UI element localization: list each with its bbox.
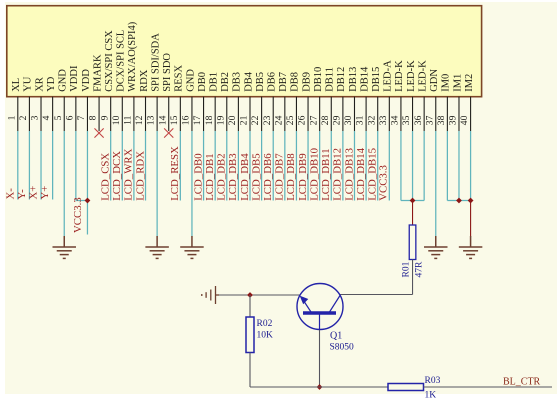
svg-text:XR: XR	[34, 77, 45, 92]
pin 16 (GND)	[181, 69, 197, 131]
svg-text:DB15: DB15	[371, 67, 382, 92]
svg-text:2: 2	[18, 115, 29, 120]
resistor R03	[388, 376, 441, 399]
svg-text:Y-: Y-	[16, 189, 28, 200]
wire LED-K link	[401, 200, 424, 202]
svg-text:LCD_DB11: LCD_DB11	[320, 148, 332, 200]
svg-text:LCD_DB10: LCD_DB10	[308, 148, 320, 201]
svg-text:7: 7	[76, 115, 87, 120]
resistor R02	[246, 317, 273, 353]
svg-text:38: 38	[436, 115, 447, 125]
wire pin 39	[458, 131, 460, 201]
pin 1 (XL)	[6, 78, 22, 131]
wire pin 38	[446, 131, 448, 201]
pin 7 (VDD)	[76, 69, 92, 131]
pin 33 (LED-A)	[378, 60, 394, 131]
ground pin 37	[424, 236, 448, 258]
svg-text:R02: R02	[257, 319, 273, 329]
wire pin 22 LCD_DB5	[250, 131, 262, 201]
resistor R01	[402, 225, 425, 278]
pin 32 (DB15)	[366, 67, 382, 131]
wire pin 1	[4, 131, 17, 200]
pin 30 (DB13)	[343, 67, 359, 131]
wire pin 5 to ground	[63, 131, 65, 237]
svg-text:18: 18	[204, 115, 215, 125]
svg-text:20: 20	[227, 115, 238, 125]
svg-text:DB8: DB8	[290, 72, 301, 92]
pin 13 (SPI SDI/SDA)	[146, 33, 162, 131]
svg-text:15: 15	[169, 115, 180, 125]
svg-text:YU: YU	[23, 76, 34, 92]
wire pin 2	[16, 131, 30, 200]
svg-text:LCD_DB3: LCD_DB3	[227, 153, 239, 200]
pin 19 (DB2)	[215, 72, 231, 131]
pin 23 (DB6)	[262, 72, 278, 131]
svg-text:LCD_DB2: LCD_DB2	[216, 153, 228, 200]
svg-text:34: 34	[390, 115, 401, 125]
svg-text:SPI SDI/SDA: SPI SDI/SDA	[150, 33, 161, 92]
junction R02 top	[247, 292, 253, 298]
pin 37 (GDN)	[424, 69, 440, 131]
svg-text:DB6: DB6	[267, 72, 278, 92]
svg-text:DB12: DB12	[336, 67, 347, 92]
svg-text:LCD_DB4: LCD_DB4	[239, 153, 251, 201]
svg-text:40: 40	[459, 115, 470, 125]
svg-text:X-: X-	[4, 188, 16, 200]
wire R03 to BL_CTR	[424, 386, 553, 388]
svg-text:26: 26	[297, 115, 308, 125]
svg-text:IM1: IM1	[452, 74, 463, 92]
svg-text:6: 6	[64, 115, 75, 120]
pin 21 (DB4)	[239, 71, 255, 131]
wire pin 26 LCD_DB9	[297, 131, 309, 201]
ground pin 13	[145, 236, 169, 258]
svg-text:LCD_DCX: LCD_DCX	[111, 151, 123, 201]
pin 27 (DB10)	[308, 67, 324, 131]
wire pin 9 LCD_CSX	[99, 131, 111, 201]
wire junction to R02	[249, 295, 251, 317]
svg-text:LCD_CSX: LCD_CSX	[99, 153, 111, 201]
svg-text:4: 4	[41, 115, 52, 120]
svg-text:31: 31	[355, 115, 366, 125]
ground pin 5	[52, 236, 75, 258]
svg-text:27: 27	[308, 115, 319, 125]
junction base	[317, 384, 323, 390]
svg-text:LCD_DB12: LCD_DB12	[332, 148, 344, 201]
pin 31 (DB14)	[355, 66, 371, 131]
svg-text:RDX: RDX	[139, 69, 150, 92]
pin 4 (YD)	[41, 76, 57, 131]
svg-text:LED-A: LED-A	[383, 60, 394, 92]
wire pin 6	[76, 131, 88, 201]
svg-text:47R: 47R	[415, 261, 425, 278]
wire pin 15 LCD_RESX	[169, 131, 181, 201]
pin 26 (DB9)	[297, 72, 313, 131]
svg-text:X+: X+	[28, 186, 40, 200]
pin 34 (LED-K)	[390, 60, 406, 131]
pin 35 (LED-K)	[401, 60, 417, 131]
svg-text:DB10: DB10	[313, 67, 324, 92]
no-connect X pin 8	[94, 128, 103, 137]
svg-text:R01: R01	[402, 261, 412, 277]
svg-text:R03: R03	[425, 376, 441, 386]
pin 3 (XR)	[30, 77, 46, 131]
wire pin 24 LCD_DB7	[274, 131, 286, 201]
wire pin 18 LCD_DB1	[204, 131, 216, 201]
svg-text:39: 39	[448, 115, 459, 125]
pin 24 (DB7)	[273, 72, 289, 131]
svg-text:8: 8	[88, 115, 99, 120]
svg-text:37: 37	[424, 115, 435, 125]
connector J1 body	[7, 6, 482, 97]
pin 40 (IM2)	[459, 74, 475, 131]
pin 14 (SPI SDO)	[157, 53, 173, 131]
svg-text:CSX/SPI CSX: CSX/SPI CSX	[104, 30, 115, 92]
svg-text:VCC3.3: VCC3.3	[72, 197, 84, 233]
svg-text:24: 24	[273, 115, 284, 125]
svg-text:14: 14	[157, 115, 168, 125]
svg-text:XL: XL	[11, 78, 22, 92]
pin 9 (CSX/SPI CSX)	[99, 30, 115, 131]
wire pin 7 VCC3.3	[72, 131, 88, 235]
svg-text:LCD_DB7: LCD_DB7	[274, 153, 286, 201]
wire pin 35	[412, 131, 414, 201]
svg-text:DB4: DB4	[243, 71, 254, 92]
junction IM pin39	[456, 198, 462, 204]
wire R02 to base rail	[249, 353, 251, 388]
pin 22 (DB5)	[250, 72, 266, 131]
svg-text:DB9: DB9	[301, 72, 312, 92]
pin 25 (DB8)	[285, 72, 301, 131]
svg-text:1K: 1K	[425, 391, 437, 399]
wire pin 20 LCD_DB3	[227, 131, 239, 201]
svg-text:29: 29	[331, 115, 342, 125]
svg-text:LED-K: LED-K	[417, 60, 428, 92]
svg-text:LCD_DB1: LCD_DB1	[204, 153, 216, 200]
wire pin 4	[39, 131, 53, 200]
svg-text:S8050: S8050	[330, 343, 355, 353]
pin 38 (IM0)	[436, 74, 452, 131]
pin 10 (DCX/SPI SCL)	[111, 30, 127, 131]
wire pin 36	[423, 131, 425, 201]
wire pin 29 LCD_DB12	[332, 131, 344, 201]
svg-text:GND: GND	[58, 69, 69, 92]
svg-text:19: 19	[215, 115, 226, 125]
wire base rail left	[250, 386, 388, 388]
svg-text:DB11: DB11	[325, 67, 336, 92]
svg-text:VDD: VDD	[81, 69, 92, 92]
svg-text:DB2: DB2	[220, 72, 231, 92]
svg-text:36: 36	[413, 115, 424, 125]
wire pin 25 LCD_DB8	[285, 131, 297, 201]
svg-text:WRX/AO(SPI4): WRX/AO(SPI4)	[127, 21, 138, 92]
pin 15 (RESX)	[169, 65, 185, 131]
wire pin 28 LCD_DB11	[320, 131, 332, 201]
wire LED-K to R01	[412, 201, 414, 226]
no-connect X pin 14	[164, 128, 173, 137]
wire base	[319, 330, 321, 387]
svg-text:3: 3	[30, 115, 41, 120]
svg-text:16: 16	[181, 115, 192, 125]
svg-text:LCD_RESX: LCD_RESX	[169, 146, 181, 201]
svg-text:DB13: DB13	[348, 67, 359, 92]
svg-text:12: 12	[134, 115, 145, 125]
pin 20 (DB3)	[227, 72, 243, 131]
junction LED-K	[410, 198, 416, 204]
svg-text:LCD_DB14: LCD_DB14	[355, 147, 367, 200]
pin 18 (DB1)	[204, 72, 220, 131]
svg-text:LCD_DB9: LCD_DB9	[297, 153, 309, 200]
svg-text:10: 10	[111, 115, 122, 125]
svg-text:Y+: Y+	[39, 186, 51, 200]
svg-text:17: 17	[192, 115, 203, 125]
svg-text:DB3: DB3	[232, 72, 243, 92]
svg-text:25: 25	[285, 115, 296, 125]
wire pin 10 LCD_DCX	[111, 131, 123, 201]
svg-text:RESX: RESX	[174, 65, 185, 92]
svg-text:9: 9	[99, 115, 110, 120]
svg-text:BL_CTR: BL_CTR	[503, 377, 541, 388]
svg-text:DB5: DB5	[255, 72, 266, 92]
wire ground to emitter	[219, 294, 300, 296]
svg-text:10K: 10K	[257, 331, 274, 341]
pin 5 (GND)	[53, 69, 69, 131]
svg-text:32: 32	[366, 115, 377, 125]
transistor Q1 S8050	[297, 284, 354, 353]
svg-text:35: 35	[401, 115, 412, 125]
svg-text:28: 28	[320, 115, 331, 125]
ground IM	[459, 236, 483, 258]
ground emitter	[202, 286, 219, 304]
svg-text:1: 1	[6, 115, 17, 120]
wire pin 12 LCD_RDX	[134, 131, 146, 201]
wire R01 to collector	[340, 260, 413, 295]
wire IM to ground	[470, 201, 472, 237]
junction pin6/7	[85, 198, 91, 204]
svg-text:DB7: DB7	[278, 72, 289, 92]
wire pin 11 LCD_WRX	[123, 131, 135, 201]
svg-text:Q1: Q1	[330, 331, 342, 342]
wire pin 30 LCD_DB13	[343, 131, 355, 201]
pin 36 (LED-K)	[413, 60, 429, 131]
svg-text:IM0: IM0	[441, 74, 452, 92]
svg-text:DB0: DB0	[197, 72, 208, 92]
wire pin 23 LCD_DB6	[262, 131, 274, 201]
svg-text:LCD_DB0: LCD_DB0	[192, 153, 204, 200]
svg-text:5: 5	[53, 115, 64, 120]
svg-text:GND: GND	[185, 69, 196, 92]
svg-text:LCD_DB13: LCD_DB13	[343, 148, 355, 201]
pin 39 (IM1)	[448, 74, 464, 131]
svg-text:LCD_WRX: LCD_WRX	[123, 148, 135, 200]
pin 8 (FMARK)	[88, 54, 104, 131]
svg-text:22: 22	[250, 115, 261, 125]
wire pin 27 LCD_DB10	[308, 131, 320, 201]
svg-text:SPI SDO: SPI SDO	[162, 53, 173, 92]
ground pin 16	[180, 236, 204, 258]
svg-text:FMARK: FMARK	[92, 54, 103, 92]
wire pin 33 VCC3.3	[378, 131, 390, 201]
wire pin 37 to ground	[435, 131, 437, 237]
svg-text:DB1: DB1	[208, 72, 219, 92]
wire pin 3	[28, 131, 42, 200]
svg-text:LCD_DB6: LCD_DB6	[262, 153, 274, 201]
pin 6 (VDDI)	[64, 65, 80, 131]
wire pin 34	[400, 131, 402, 201]
wire pin 32 LCD_DB15	[367, 131, 379, 201]
svg-text:VDDI: VDDI	[69, 65, 80, 92]
wire IM link	[447, 200, 470, 202]
wire pin 21 LCD_DB4	[239, 131, 251, 201]
svg-text:13: 13	[146, 115, 157, 125]
svg-text:21: 21	[239, 115, 250, 125]
junction IM pin40	[468, 198, 474, 204]
svg-text:VCC3.3: VCC3.3	[378, 165, 390, 201]
svg-text:GDN: GDN	[429, 69, 440, 92]
wire pin 31 LCD_DB14	[355, 131, 367, 201]
svg-text:LED-K: LED-K	[394, 60, 405, 92]
pin 2 (YU)	[18, 76, 34, 131]
svg-text:23: 23	[262, 115, 273, 125]
svg-text:LED-K: LED-K	[406, 60, 417, 92]
svg-text:LCD_DB8: LCD_DB8	[285, 153, 297, 200]
svg-text:LCD_DB5: LCD_DB5	[250, 153, 262, 200]
svg-text:33: 33	[378, 115, 389, 125]
pin 12 (RDX)	[134, 69, 150, 131]
svg-text:LCD_RDX: LCD_RDX	[134, 151, 146, 201]
wire pin 17 LCD_DB0	[192, 131, 204, 201]
svg-text:DCX/SPI SCL: DCX/SPI SCL	[116, 30, 127, 92]
svg-text:IM2: IM2	[464, 74, 475, 92]
wire pin 13 to ground	[156, 131, 158, 237]
wire pin 16 to ground	[191, 131, 193, 237]
pin 29 (DB12)	[331, 67, 347, 131]
svg-text:11: 11	[123, 115, 134, 124]
pin 28 (DB11)	[320, 67, 336, 131]
svg-text:YD: YD	[46, 76, 57, 92]
wire pin 40	[470, 131, 472, 201]
pin 17 (DB0)	[192, 72, 208, 131]
wire pin 19 LCD_DB2	[216, 131, 228, 201]
pin 11 (WRX/AO(SPI4))	[123, 21, 139, 131]
svg-text:30: 30	[343, 115, 354, 125]
svg-text:DB14: DB14	[359, 66, 370, 92]
